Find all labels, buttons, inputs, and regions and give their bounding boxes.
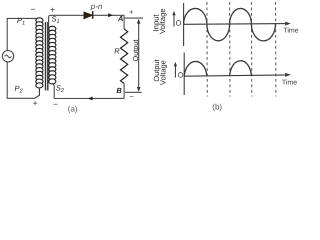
- svg-text:(a): (a): [68, 105, 78, 114]
- output rectified wave hump 1: [184, 61, 207, 76]
- svg-text:Time: Time: [282, 79, 297, 87]
- svg-text:O: O: [176, 19, 182, 28]
- output top tick: [124, 17, 143, 19]
- wire diode to node A with current arrow: [93, 14, 124, 16]
- wire secondary top to diode: [51, 14, 84, 16]
- svg-text:+: +: [50, 5, 55, 15]
- svg-text:B: B: [116, 86, 122, 95]
- bottom wire B to S2 with arrow: [54, 97, 124, 99]
- wire resistor to node B: [123, 84, 125, 99]
- svg-text:Time: Time: [283, 26, 298, 34]
- dashed gridline 3: [250, 2, 252, 97]
- input chart x-axis with arrow: [184, 23, 289, 26]
- svg-text:P1: P1: [17, 16, 25, 27]
- dashed gridline 4: [275, 2, 277, 97]
- output bottom tick: [125, 91, 142, 93]
- svg-text:p-n: p-n: [90, 2, 103, 11]
- svg-text:(b): (b): [212, 102, 222, 111]
- svg-text:A: A: [117, 14, 123, 23]
- diode D1 p-n: [84, 12, 92, 19]
- secondary top stub wire: [49, 15, 51, 28]
- secondary bottom wire to S2: [52, 83, 54, 98]
- svg-text:Voltage: Voltage: [159, 60, 168, 85]
- svg-text:R: R: [114, 46, 120, 55]
- svg-text:−: −: [53, 99, 58, 109]
- svg-text:−: −: [130, 92, 135, 101]
- svg-text:Output: Output: [131, 40, 140, 62]
- input axis label arrow: [173, 13, 175, 27]
- svg-text:S2: S2: [56, 84, 64, 95]
- svg-text:O: O: [178, 70, 184, 79]
- svg-text:S1: S1: [52, 15, 60, 26]
- transformer core: [45, 22, 47, 91]
- dashed gridline 1: [206, 2, 208, 97]
- svg-text:+: +: [33, 98, 38, 108]
- transformer primary coil: [36, 18, 43, 88]
- input chart y-axis: [183, 3, 185, 46]
- dashed gridline 2: [229, 2, 231, 97]
- svg-text:P2: P2: [15, 84, 23, 95]
- input sine wave: [184, 8, 276, 40]
- output double arrow: [138, 21, 140, 90]
- output axis label arrow: [174, 64, 176, 78]
- transformer secondary coil: [49, 26, 56, 84]
- AC source V1: [2, 51, 13, 62]
- svg-text:+: +: [129, 8, 134, 17]
- output chart x-axis with arrow: [184, 75, 289, 76]
- wire primary loop top: [7, 18, 38, 50]
- output chart y-axis: [183, 53, 185, 96]
- output rectified wave hump 2: [230, 61, 252, 76]
- resistor R (load): [121, 29, 128, 84]
- svg-text:−: −: [30, 4, 35, 14]
- wire primary loop bottom: [7, 62, 34, 98]
- svg-text:Voltage: Voltage: [158, 8, 167, 34]
- primary bottom hook wire: [35, 88, 40, 99]
- node A corner wire down: [123, 15, 125, 29]
